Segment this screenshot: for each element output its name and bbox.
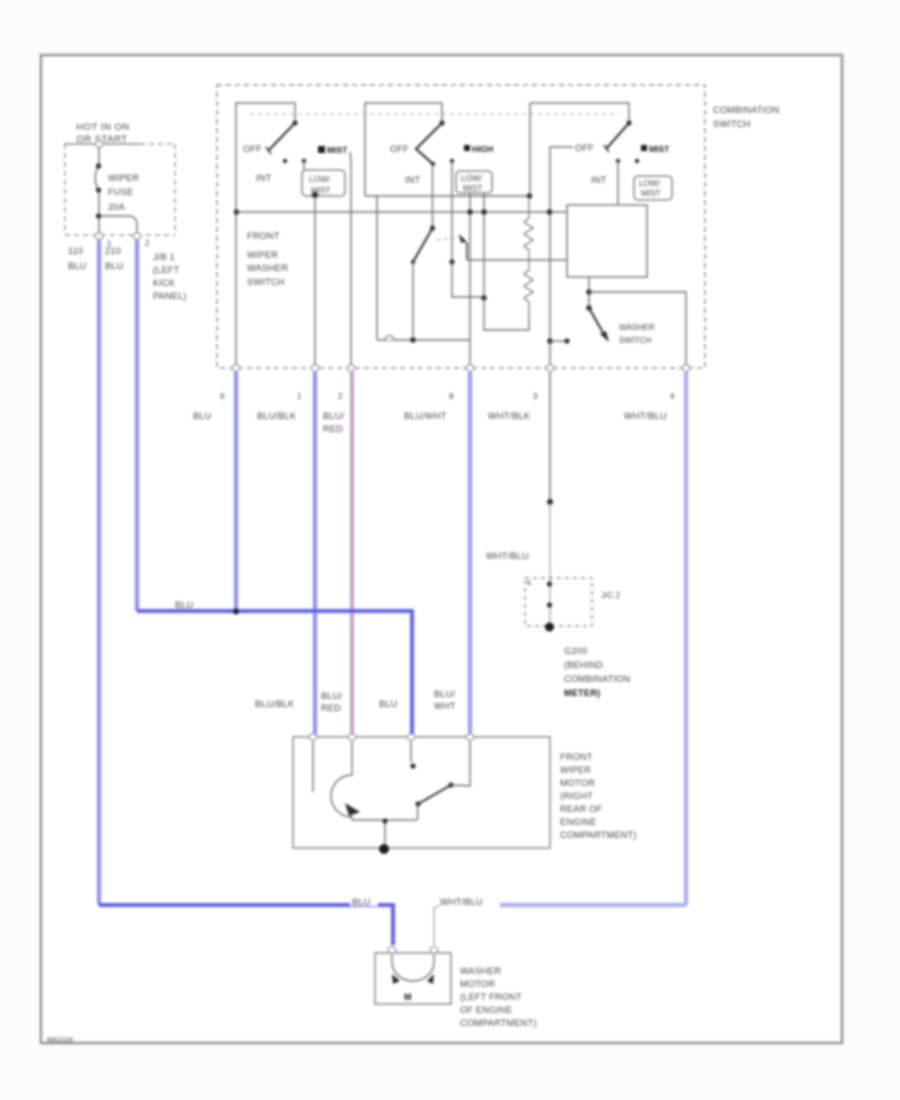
svg-text:OF ENGINE: OF ENGINE	[460, 1005, 512, 1015]
pole 2 fixed contact	[450, 159, 454, 163]
pole 2 LOW/MIST text	[461, 174, 483, 193]
pole 3 arm	[606, 123, 629, 149]
pole 1 LOW/MIST text	[309, 175, 331, 195]
pole 2 arm end dot	[431, 162, 435, 166]
switch pole 3 rail and frame	[530, 103, 629, 196]
pole 3 contacts	[616, 159, 620, 163]
svg-text:WIPER: WIPER	[247, 250, 278, 260]
wire BLU terminal 6 down	[234, 372, 238, 611]
svg-text:INT: INT	[591, 175, 607, 185]
cam switch pivot	[430, 225, 435, 230]
svg-text:ENGINE: ENGINE	[560, 817, 596, 827]
motor ground drop	[384, 820, 386, 848]
wire pole1 MIST output	[350, 152, 351, 368]
washer switch label	[619, 323, 655, 345]
wire to terminal 8	[469, 340, 471, 368]
svg-text:J/C 2: J/C 2	[601, 591, 621, 600]
washer motor winding cup	[392, 954, 434, 981]
svg-text:FRONT: FRONT	[247, 231, 280, 241]
junction dot WHT/BLK	[547, 499, 553, 505]
wire fuse feed	[95, 144, 137, 236]
pole 1 arm tip tick	[266, 147, 271, 154]
node dot	[481, 295, 487, 301]
svg-text:J/B 1: J/B 1	[153, 252, 175, 262]
svg-text:20A: 20A	[108, 202, 126, 212]
svg-text:WIPER: WIPER	[560, 765, 591, 775]
svg-text:COMBINATION: COMBINATION	[564, 674, 630, 684]
option loop symbol	[385, 336, 394, 341]
wire BLU bottom run to washer	[99, 905, 393, 945]
svg-text:MIST: MIST	[327, 145, 348, 155]
svg-text:WHT: WHT	[434, 701, 456, 711]
pole 1 pivot	[292, 120, 297, 125]
motor case ground eyelet	[379, 844, 389, 854]
washer motor brush arrows	[392, 974, 400, 984]
svg-text:SWITCH: SWITCH	[247, 277, 284, 287]
svg-text:KICK: KICK	[153, 278, 176, 288]
svg-text:6: 6	[220, 392, 225, 401]
ground eyelet G200	[545, 623, 554, 632]
svg-text:BLU: BLU	[175, 600, 193, 610]
svg-text:LOW/: LOW/	[309, 175, 331, 184]
svg-text:2: 2	[145, 239, 150, 248]
svg-text:MIST: MIST	[641, 189, 661, 198]
svg-text:FRONT: FRONT	[560, 752, 593, 762]
cam arrow contact	[459, 234, 467, 260]
pole 3 LOW/MIST contact box	[634, 176, 672, 200]
cam arm end dot	[411, 260, 415, 264]
svg-text:BLU: BLU	[105, 261, 123, 271]
pole 1 LOW contact dot	[302, 159, 306, 163]
svg-text:(BEHIND: (BEHIND	[564, 660, 603, 670]
svg-text:MIST: MIST	[463, 184, 483, 193]
pole 3 arm tip tick	[604, 145, 609, 152]
wire pole1 LOW output	[314, 196, 316, 368]
wiper fuse 20A element dots	[96, 163, 101, 218]
combination switch terminal ovals	[232, 365, 690, 371]
svg-text:8: 8	[449, 392, 454, 401]
park contact dot	[410, 763, 415, 768]
motor brush stub 1	[312, 741, 314, 792]
wiper motor connector labels	[255, 689, 456, 713]
label BLU bottom	[350, 897, 378, 907]
svg-text:WASHER: WASHER	[460, 966, 501, 976]
wire WHT/BLU to J/C2	[549, 502, 551, 627]
park pivot drop	[417, 804, 419, 820]
svg-text:(LEFT: (LEFT	[153, 265, 180, 275]
wire WHT link to washer	[434, 905, 440, 945]
svg-text:INT: INT	[256, 173, 272, 183]
svg-text:4: 4	[670, 392, 675, 401]
park arm pivot dot	[415, 801, 420, 806]
svg-text:PANEL): PANEL)	[153, 291, 187, 301]
terminal pin numbers	[220, 392, 675, 401]
svg-text:RED: RED	[321, 703, 341, 713]
wire WHT/BLU terminal 4 down	[684, 372, 688, 905]
motor terminal ovals	[309, 734, 474, 740]
park switch stub	[410, 741, 412, 762]
label washer motor	[460, 966, 537, 1028]
cam fixed contact dot	[449, 259, 454, 264]
pole 3 pivot	[626, 120, 631, 125]
svg-text:MOTOR: MOTOR	[460, 979, 495, 989]
svg-text:LOW/: LOW/	[639, 179, 661, 188]
svg-text:WIPER: WIPER	[108, 173, 139, 183]
wire BLU from fuse pin1 down	[97, 240, 101, 905]
svg-text:BLU/: BLU/	[321, 691, 342, 701]
wire BLU/WHT terminal 8 down	[468, 372, 472, 737]
svg-text:WHT/BLU: WHT/BLU	[486, 551, 529, 561]
border frame	[41, 55, 842, 1043]
wire pole2 second leg	[483, 193, 485, 298]
park feed wire	[451, 741, 470, 786]
mechanical link dashed line	[250, 113, 620, 115]
park arm	[418, 785, 451, 804]
wire BLU J/B horizontal	[137, 611, 412, 737]
washer switch dots	[586, 289, 592, 311]
front wiper motor box	[293, 737, 550, 848]
svg-text:SWITCH: SWITCH	[713, 119, 750, 129]
svg-text:WASHER: WASHER	[247, 263, 288, 273]
main bus wire	[236, 211, 567, 213]
svg-text:BLU/BLK: BLU/BLK	[255, 699, 295, 709]
washer switch arm	[589, 308, 605, 336]
wire WHT/BLK terminal 3 down	[549, 372, 551, 502]
washer motor box	[375, 953, 451, 1004]
svg-text:HIGH: HIGH	[472, 144, 493, 154]
wire code 210 BLU	[105, 246, 123, 271]
svg-text:LOW/: LOW/	[461, 174, 483, 183]
svg-text:1: 1	[297, 392, 302, 401]
pole 1 arm	[268, 123, 295, 151]
J/C2 internal dots	[547, 581, 552, 607]
junction dot lower line	[410, 337, 416, 343]
svg-text:COMPARTMENT): COMPARTMENT)	[560, 830, 637, 840]
label front wiper motor	[560, 752, 637, 840]
washer switch stub	[588, 277, 590, 308]
switch pole 2 rail and frame	[365, 103, 442, 196]
svg-text:WHT/BLU: WHT/BLU	[440, 897, 483, 907]
wire pole2 LOW leg	[469, 193, 471, 340]
park feed dot	[448, 782, 453, 787]
svg-text:FUSE: FUSE	[108, 187, 133, 197]
cam switch arm	[413, 228, 433, 262]
svg-text:110: 110	[68, 246, 83, 256]
resistor loop	[484, 298, 529, 330]
junction dot motor ground	[382, 818, 387, 823]
svg-text:MIST: MIST	[649, 144, 670, 154]
svg-text:SWITCH: SWITCH	[619, 336, 651, 345]
ground label G200	[564, 646, 630, 698]
wire pole2 arm to cam	[432, 164, 434, 228]
pole 2 arm	[416, 123, 442, 164]
svg-text:REAR OF: REAR OF	[560, 804, 602, 814]
wire washer loop to terminal 4	[589, 292, 686, 368]
wire pole3 OFF contact	[550, 147, 573, 368]
intermittent relay box U1	[567, 205, 647, 277]
svg-text:BLU: BLU	[379, 699, 397, 709]
svg-text:BLU/BLK: BLU/BLK	[257, 411, 297, 421]
svg-text:WHT/BLU: WHT/BLU	[624, 411, 667, 421]
lower collector line	[377, 339, 470, 341]
rail A (switch common)	[365, 195, 530, 197]
svg-text:BLU: BLU	[68, 261, 86, 271]
svg-text:RED: RED	[323, 424, 343, 434]
wire pole3 INT contact to relay	[617, 161, 619, 205]
washer terminal ovals	[388, 947, 438, 953]
pole 1 LOW/MIST contact box	[302, 170, 345, 196]
combination switch dashed box	[217, 85, 705, 368]
wire BLU/BLK terminal 1 down	[313, 372, 317, 737]
svg-text:OFF: OFF	[243, 144, 262, 154]
wire pole2 INT contact down	[451, 161, 453, 262]
svg-text:BLU/: BLU/	[434, 689, 455, 699]
washer fixed contact dot	[564, 338, 569, 343]
svg-text:M: M	[404, 992, 412, 1002]
switch pole 1 rail and frame	[236, 103, 295, 368]
pole 1 contact output dot	[312, 192, 318, 198]
cam mechanical dashes	[437, 237, 459, 240]
pole 1 MIST marker	[318, 145, 348, 155]
svg-text:BLU/WHT: BLU/WHT	[404, 411, 447, 421]
rail A junction dot	[527, 193, 533, 199]
svg-text:INT: INT	[405, 175, 421, 185]
svg-text:B: B	[527, 581, 531, 587]
junction dot BLU	[233, 609, 239, 615]
junction dot pole1 rail / bus	[234, 209, 240, 215]
wire color labels row1	[193, 411, 667, 434]
motor armature symbol	[331, 775, 352, 820]
svg-text:MA2104: MA2104	[47, 1037, 73, 1044]
junction connector J/C2 dashed box	[525, 578, 592, 626]
wire cam arm down	[412, 262, 414, 340]
svg-text:BLU: BLU	[352, 897, 370, 907]
svg-text:210: 210	[105, 246, 121, 256]
svg-text:MOTOR: MOTOR	[560, 778, 595, 788]
pole 1 INT contact	[283, 159, 287, 163]
svg-text:HOT IN ON: HOT IN ON	[76, 122, 129, 133]
pole 2 HIGH marker	[464, 144, 493, 154]
wiper fuse label	[108, 173, 139, 212]
svg-text:COMBINATION: COMBINATION	[713, 105, 779, 115]
pole 3 MIST marker	[641, 144, 670, 154]
washer arm tip	[600, 331, 609, 342]
label FRONT WIPER WASHER SWITCH	[247, 231, 288, 287]
relay feed rail	[467, 259, 567, 261]
junction dot WHT/BLK branch	[547, 338, 553, 344]
pole 1 LOW contact stub	[303, 161, 305, 170]
motor bottom link	[352, 819, 417, 821]
pole 2 pivot	[439, 120, 444, 125]
wire WHT/BLU bottom run	[500, 903, 686, 907]
svg-text:OFF: OFF	[575, 143, 594, 153]
junction block J/B1 dashed box	[65, 144, 175, 235]
svg-text:OFF: OFF	[390, 144, 409, 154]
node HOT IN ON OR START label	[64, 122, 140, 145]
wire rail A drop	[376, 196, 378, 340]
stub washer fixed contact	[550, 340, 565, 342]
motor arrow	[345, 803, 360, 816]
svg-text:COMPARTMENT): COMPARTMENT)	[460, 1018, 537, 1028]
svg-text:2: 2	[338, 392, 343, 401]
svg-text:(LEFT FRONT: (LEFT FRONT	[460, 992, 522, 1002]
motor brush stub 2	[351, 741, 353, 775]
label J/B 1 LEFT KICK PANEL	[153, 252, 187, 301]
wire code 110 BLU	[68, 246, 86, 271]
wire BLU/RED terminal 2 down	[350, 372, 354, 737]
svg-text:WHT/BLK: WHT/BLK	[488, 411, 531, 421]
wire BLU from fuse pin2 down	[135, 240, 139, 611]
connector half-ovals J/B1	[95, 141, 141, 239]
bus junction dots	[467, 209, 552, 215]
svg-text:METER): METER)	[564, 688, 600, 698]
svg-text:G200: G200	[564, 646, 587, 656]
svg-text:WASHER: WASHER	[619, 323, 655, 332]
svg-text:BLU/: BLU/	[323, 411, 344, 421]
svg-text:BLU: BLU	[193, 411, 211, 421]
pole 3 LOW/MIST text	[639, 179, 661, 198]
resistor element	[524, 196, 533, 318]
wire cam contact L	[452, 262, 484, 297]
svg-text:3: 3	[533, 392, 538, 401]
label COMBINATION SWITCH	[713, 105, 779, 129]
svg-text:(RIGHT: (RIGHT	[560, 791, 593, 801]
pole 2 LOW/MIST contact box	[456, 171, 492, 193]
